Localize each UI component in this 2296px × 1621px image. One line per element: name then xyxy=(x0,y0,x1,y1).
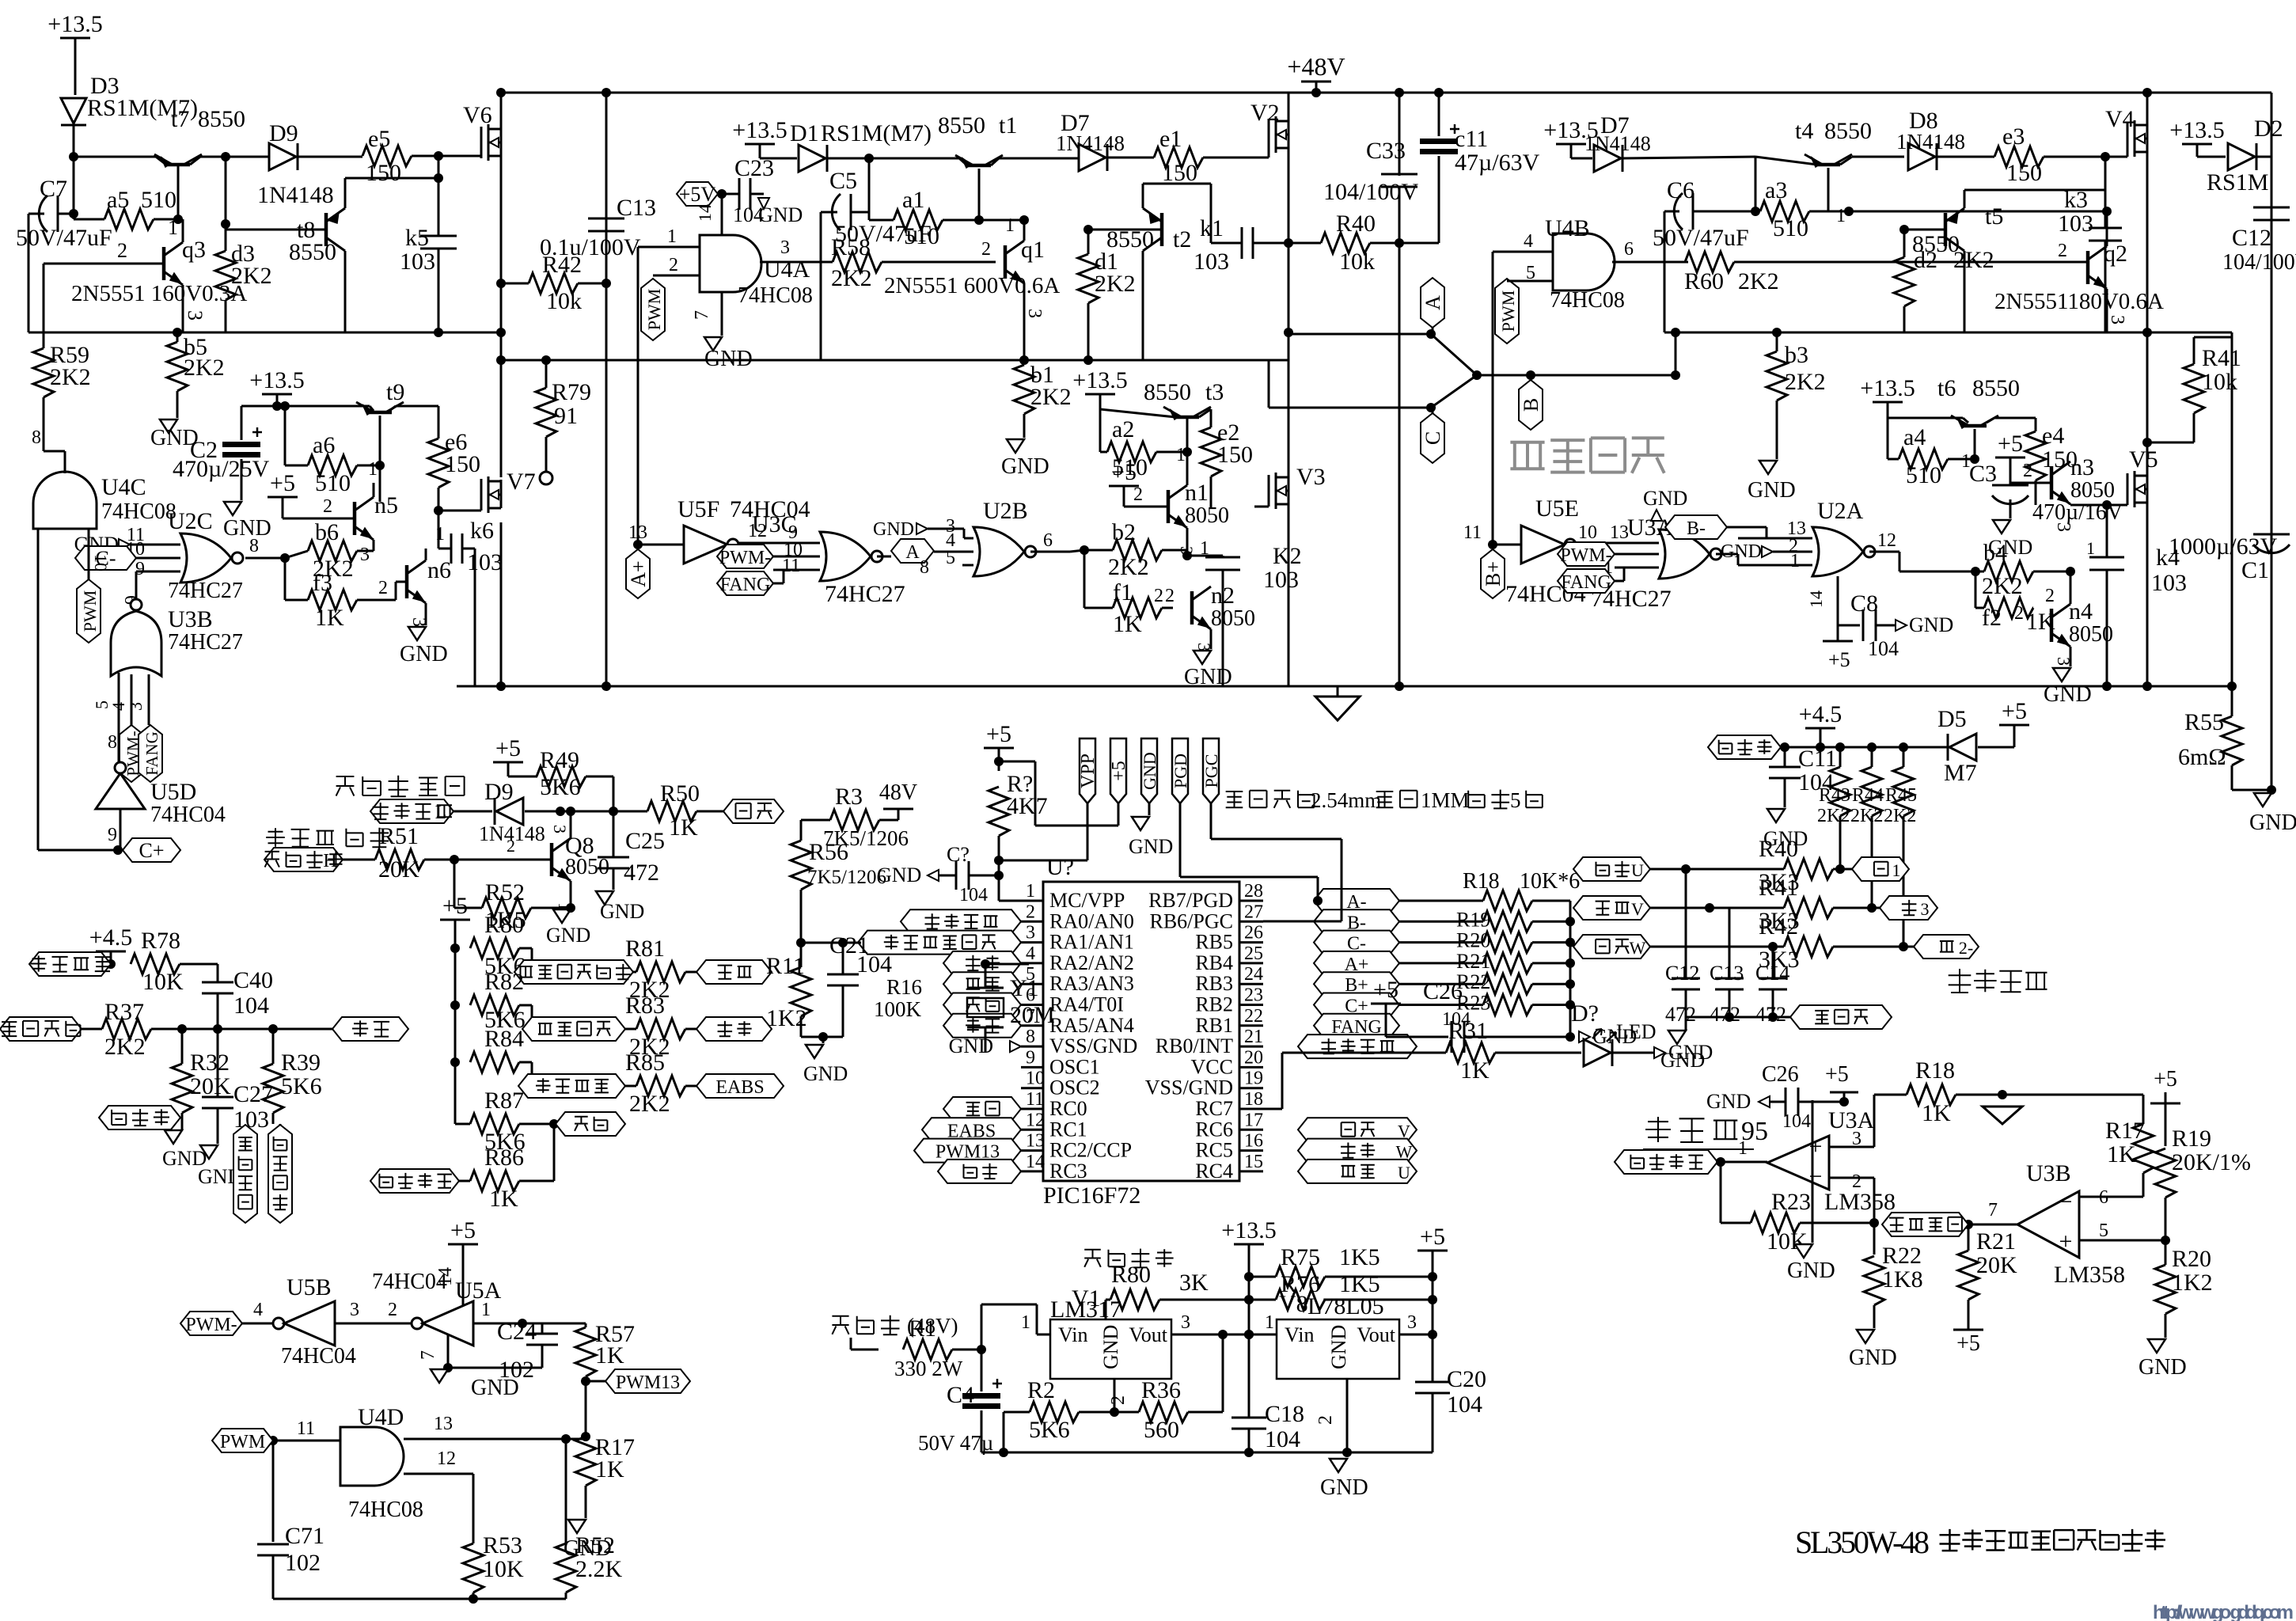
transistor t1 xyxy=(938,112,1078,220)
svg-text:1K5: 1K5 xyxy=(1339,1244,1380,1270)
transistor n6 xyxy=(407,549,451,627)
svg-text:74HC08: 74HC08 xyxy=(1550,288,1625,313)
svg-text:GND: GND xyxy=(1849,1346,1897,1370)
NOR gate U2B xyxy=(873,498,1070,576)
wire b2 riser xyxy=(1177,546,1197,555)
svg-text:2: 2 xyxy=(981,239,991,260)
svg-text:+: + xyxy=(1809,1133,1823,1160)
svg-text:12: 12 xyxy=(1877,530,1896,551)
svg-text:R3: R3 xyxy=(835,784,863,810)
flag speed-limit switch 2 xyxy=(268,1124,292,1223)
capacitor C21 xyxy=(801,932,892,1042)
pin 28 RB7/PGD xyxy=(1148,881,1263,912)
resistor R59 xyxy=(33,332,91,397)
svg-text:f1: f1 xyxy=(1113,579,1133,606)
capacitor k5 xyxy=(400,156,457,337)
svg-text:8550: 8550 xyxy=(1972,375,2020,401)
flag B+ U5E xyxy=(1481,549,1505,598)
svg-text:10: 10 xyxy=(1026,1069,1045,1089)
svg-text:GND: GND xyxy=(223,516,271,541)
svg-text:12: 12 xyxy=(437,1448,456,1469)
wire U4A pin7 xyxy=(692,292,753,371)
AND gate U4B xyxy=(1493,215,1688,313)
svg-text:GND: GND xyxy=(1706,1090,1751,1113)
capacitor C25 xyxy=(596,811,665,923)
flag C+ xyxy=(113,838,180,862)
svg-text:OSC1: OSC1 xyxy=(1049,1055,1100,1078)
svg-text:R42: R42 xyxy=(1759,913,1798,940)
svg-text:4: 4 xyxy=(1524,231,1533,252)
svg-text:74HC08: 74HC08 xyxy=(738,283,813,308)
svg-text:R80: R80 xyxy=(484,912,524,938)
transistor n5 xyxy=(323,492,398,551)
opamp U3B xyxy=(1964,1160,2170,1288)
flag C+ pin23 xyxy=(1314,993,1399,1017)
diode D9 xyxy=(257,120,362,208)
svg-text:D9: D9 xyxy=(269,120,298,146)
svg-text:VCC: VCC xyxy=(1191,1055,1233,1078)
svg-text:1K2: 1K2 xyxy=(766,1005,807,1031)
pin 27 RB6/PGC xyxy=(1150,902,1264,932)
power +5 R49 xyxy=(493,735,537,776)
pin 7 RA5/AN4 xyxy=(1021,1006,1134,1037)
flag PWM- out xyxy=(180,1300,273,1335)
svg-text:R82: R82 xyxy=(484,969,524,995)
wire n2 col2 xyxy=(0,0,1,1)
svg-text:3: 3 xyxy=(408,617,429,627)
svg-text:20K/1%: 20K/1% xyxy=(2172,1149,2251,1175)
power +5 C3 xyxy=(1995,431,2025,483)
resistor R1 xyxy=(894,1315,986,1380)
capacitor C27 xyxy=(198,1029,273,1188)
svg-text:R40: R40 xyxy=(1336,211,1376,237)
wire U2A out to b4 xyxy=(1899,552,1975,571)
flag brake out xyxy=(723,799,784,823)
flag 刹车 pin5 xyxy=(943,972,1021,996)
svg-text:C1: C1 xyxy=(2241,557,2269,583)
svg-text:R43: R43 xyxy=(1819,785,1850,806)
flag speed-limit switch 1 xyxy=(233,1125,257,1223)
svg-text:3: 3 xyxy=(1181,1312,1190,1333)
flag blue1 xyxy=(1852,857,1909,881)
svg-text:R86: R86 xyxy=(484,1145,524,1171)
svg-text:8550: 8550 xyxy=(289,239,336,265)
svg-text:2: 2 xyxy=(1154,586,1163,606)
resistor b6 xyxy=(285,519,374,582)
pin 8 VSS/GND xyxy=(1021,1027,1137,1057)
capacitor C24 xyxy=(497,1319,586,1383)
svg-text:V: V xyxy=(1631,899,1644,919)
resistor R56 xyxy=(791,820,886,943)
svg-text:2: 2 xyxy=(1165,586,1175,606)
resistor d2 xyxy=(1894,230,1994,332)
svg-text:2: 2 xyxy=(2023,461,2032,481)
svg-text:1N4148: 1N4148 xyxy=(257,182,334,208)
capacitor C33 xyxy=(1323,88,1418,691)
svg-text:2: 2 xyxy=(117,239,127,262)
resistor e6 xyxy=(428,429,480,515)
capacitor C3 xyxy=(1969,461,2123,559)
resistor R21 xyxy=(1958,1224,2017,1330)
pin 5 RA3/AN3 xyxy=(1021,964,1134,995)
svg-text:U3B: U3B xyxy=(2026,1160,2071,1186)
svg-text:13: 13 xyxy=(434,1414,453,1434)
svg-text:14: 14 xyxy=(435,1267,456,1286)
resistor R45 xyxy=(1884,747,1917,947)
flag hall red xyxy=(1708,735,1947,759)
flag PWM13 out xyxy=(586,1369,690,1393)
svg-text:PWM: PWM xyxy=(80,590,100,632)
svg-text:R60: R60 xyxy=(1684,268,1724,294)
resistor R36 xyxy=(1114,1330,1228,1443)
label R18 10K*6 xyxy=(1463,869,1580,894)
svg-text:+5V: +5V xyxy=(679,183,716,206)
svg-text:LED: LED xyxy=(1616,1020,1657,1043)
resistor R84 row xyxy=(470,1026,532,1086)
svg-text:RA5/AN4: RA5/AN4 xyxy=(1049,1014,1134,1037)
mosfet V7 xyxy=(438,469,536,691)
svg-text:2: 2 xyxy=(2058,241,2067,261)
svg-text:9: 9 xyxy=(1026,1047,1035,1068)
svg-text:+4.5: +4.5 xyxy=(89,924,132,951)
svg-text:OSC2: OSC2 xyxy=(1049,1076,1100,1099)
capacitor k4 xyxy=(2086,505,2187,691)
capacitor C6 xyxy=(1653,177,1760,332)
resistor b5 xyxy=(167,328,225,418)
svg-text:U2A: U2A xyxy=(1817,498,1864,524)
svg-text:Y1: Y1 xyxy=(1010,975,1039,1001)
pin 24 RB3 xyxy=(1195,964,1263,995)
svg-text:C26: C26 xyxy=(1423,978,1463,1004)
capacitor C12 xyxy=(2222,207,2296,275)
svg-text:1000µ/63V: 1000µ/63V xyxy=(2169,533,2278,560)
wire keylock xyxy=(851,1338,879,1350)
svg-text:104: 104 xyxy=(1447,1391,1482,1418)
flag PWM U4B xyxy=(1495,279,1519,344)
svg-text:−: − xyxy=(2059,1189,2073,1215)
svg-text:C33: C33 xyxy=(1366,138,1406,164)
transistor t2 xyxy=(1106,184,1191,252)
text url xyxy=(2153,1602,2294,1621)
flag PGC header xyxy=(1201,738,1342,921)
transistor n1 xyxy=(1124,452,1229,528)
svg-text:3: 3 xyxy=(360,545,370,565)
transistor n3 xyxy=(2010,454,2115,504)
svg-text:SL350W-48: SL350W-48 xyxy=(1795,1524,1930,1560)
wire C diag xyxy=(1431,375,1477,408)
svg-text:13: 13 xyxy=(1610,522,1629,543)
svg-text:PWM13: PWM13 xyxy=(616,1372,680,1393)
svg-text:R49: R49 xyxy=(540,747,579,773)
svg-text:a1: a1 xyxy=(902,187,924,213)
svg-text:R20: R20 xyxy=(1456,929,1490,952)
svg-text:+13.5: +13.5 xyxy=(47,11,102,37)
pin 13 RC2/CCP xyxy=(1021,1131,1132,1162)
svg-text:1K: 1K xyxy=(315,605,344,631)
svg-text:104: 104 xyxy=(1868,637,1899,660)
flag GND header xyxy=(1129,738,1173,858)
svg-text:0.1u/100V: 0.1u/100V xyxy=(540,234,641,260)
svg-text:R81: R81 xyxy=(625,936,665,962)
transistor q2 xyxy=(1994,207,2164,332)
mosfet V6 xyxy=(463,88,506,477)
flag A+ U5F xyxy=(626,545,650,598)
svg-text:V8: V8 xyxy=(1279,1291,1308,1317)
svg-text:16: 16 xyxy=(1244,1131,1263,1152)
flag brake switch H xyxy=(264,848,344,871)
svg-text:RC5: RC5 xyxy=(1195,1139,1233,1162)
svg-text:R11: R11 xyxy=(766,953,805,979)
svg-text:R17: R17 xyxy=(2105,1118,2145,1144)
svg-text:74HC08: 74HC08 xyxy=(101,499,176,524)
svg-text:RC7: RC7 xyxy=(1195,1097,1233,1120)
svg-text:+13.5: +13.5 xyxy=(1221,1217,1276,1243)
capacitor C? xyxy=(877,843,1004,905)
svg-text:2: 2 xyxy=(1133,484,1143,505)
power +13.5 D1 xyxy=(732,117,797,158)
svg-text:RS1M: RS1M xyxy=(2207,169,2268,196)
resistor R83 xyxy=(625,993,696,1060)
svg-text:1: 1 xyxy=(1790,551,1800,571)
power +13.5 D2 xyxy=(2169,117,2226,157)
svg-text:+48V: +48V xyxy=(1287,52,1345,81)
svg-text:GND: GND xyxy=(2044,682,2092,707)
svg-text:510: 510 xyxy=(1906,462,1941,488)
resistor R87 xyxy=(455,1088,559,1155)
text motor section xyxy=(1510,438,1664,473)
svg-text:6: 6 xyxy=(1043,530,1053,551)
svg-text:U5B: U5B xyxy=(287,1274,332,1300)
svg-text:2K2: 2K2 xyxy=(184,355,225,381)
resistor R60 xyxy=(1684,252,2088,294)
svg-text:2K2: 2K2 xyxy=(231,263,272,289)
power +5 U5A xyxy=(435,1217,478,1306)
svg-text:GND: GND xyxy=(1660,1049,1705,1072)
capacitor C7 xyxy=(16,176,112,332)
svg-text:RA0/AN0: RA0/AN0 xyxy=(1049,909,1134,932)
flag PWM left xyxy=(77,579,101,643)
svg-text:U: U xyxy=(1631,860,1644,880)
svg-text:GND: GND xyxy=(1001,454,1049,479)
svg-text:L: L xyxy=(435,803,447,823)
flag PWM- U3A xyxy=(1558,542,1615,566)
svg-text:1: 1 xyxy=(2086,538,2095,558)
svg-text:Vout: Vout xyxy=(1357,1323,1395,1346)
resistor R85 xyxy=(625,1050,696,1117)
text not exceed 95 xyxy=(1643,1117,1768,1149)
power +13.5 t3 area xyxy=(1072,367,1127,452)
svg-text:n5: n5 xyxy=(374,492,398,518)
svg-text:R41: R41 xyxy=(1759,875,1798,901)
power +5 n5 xyxy=(268,470,355,518)
svg-text:t6: t6 xyxy=(1937,375,1956,401)
resistor R80 3K xyxy=(1106,1262,1249,1310)
svg-text:104: 104 xyxy=(959,885,988,905)
svg-text:C: C xyxy=(1421,431,1444,445)
svg-text:http://www.go-gddq.com: http://www.go-gddq.com xyxy=(2153,1602,2294,1621)
svg-text:104: 104 xyxy=(1265,1426,1300,1452)
svg-text:2: 2 xyxy=(507,836,515,856)
svg-text:1: 1 xyxy=(1892,860,1901,880)
AND gate U4D xyxy=(268,1404,586,1543)
pin 22 RB1 xyxy=(1195,1006,1263,1037)
text programming note xyxy=(1226,788,1543,812)
resistor a3 xyxy=(1760,177,1854,241)
flag 调速 pin4 xyxy=(943,951,1021,975)
svg-text:1K: 1K xyxy=(595,1342,624,1369)
capacitor c11 xyxy=(1420,88,1540,243)
svg-text:2K2: 2K2 xyxy=(1850,806,1883,826)
power +13.5 mid xyxy=(1221,1217,1276,1417)
flag VPP header xyxy=(1078,738,1099,860)
flag FANG U3B xyxy=(139,725,162,782)
svg-text:3: 3 xyxy=(2054,657,2074,666)
svg-text:1: 1 xyxy=(1265,1312,1274,1333)
svg-text:+4.5: +4.5 xyxy=(1799,701,1842,727)
svg-text:VSS/GND: VSS/GND xyxy=(1145,1076,1233,1099)
svg-text:C13: C13 xyxy=(617,195,656,221)
wire R? to pin1 xyxy=(999,860,1087,901)
svg-text:+5: +5 xyxy=(270,470,295,496)
resistor b1 xyxy=(1001,355,1072,479)
flag overcurrent pin21 xyxy=(1298,1034,1417,1058)
inverter U5F xyxy=(628,496,820,564)
svg-text:1N4148: 1N4148 xyxy=(1056,131,1125,155)
power +13.5 D7b xyxy=(1543,117,1598,158)
mosfet V2 xyxy=(1250,93,1293,477)
svg-text:k6: k6 xyxy=(470,518,494,544)
svg-text:6mΩ: 6mΩ xyxy=(2178,744,2226,770)
power +5 right xyxy=(1417,1224,1448,1381)
svg-text:8: 8 xyxy=(249,536,259,556)
svg-text:t1: t1 xyxy=(999,112,1017,139)
wire U5A pin7 xyxy=(418,1334,542,1400)
flag GND U2A xyxy=(1721,541,1812,562)
flag FANG pin22 xyxy=(1314,1014,1399,1038)
svg-text:7: 7 xyxy=(692,310,712,320)
AND gate U4A xyxy=(638,226,813,308)
wire bottom power rail xyxy=(981,1448,1433,1457)
svg-text:RB7/PGD: RB7/PGD xyxy=(1148,889,1233,912)
resistor a5 xyxy=(74,187,183,239)
svg-text:50V/47uF: 50V/47uF xyxy=(1653,225,1749,251)
crystal Y1 xyxy=(967,959,1055,1028)
resistor R42 xyxy=(501,252,611,314)
svg-text:GND: GND xyxy=(400,642,448,666)
svg-text:472: 472 xyxy=(1665,1003,1696,1026)
pin 19 VSS/GND xyxy=(1145,1069,1263,1099)
svg-text:+13.5: +13.5 xyxy=(1860,375,1915,401)
resistor e4 xyxy=(2025,418,2078,505)
resistor R40 hall xyxy=(1686,836,1852,895)
power +5 n1 xyxy=(1109,459,1139,497)
pin 23 RB2 xyxy=(1195,985,1263,1016)
resistor a4 xyxy=(1888,418,1979,488)
wire U4A out xyxy=(760,261,761,264)
svg-text:1K2: 1K2 xyxy=(2172,1270,2213,1296)
pin 20 VCC xyxy=(1191,1047,1263,1078)
svg-text:100K: 100K xyxy=(874,997,922,1021)
mosfet V3 xyxy=(1254,464,1326,686)
svg-text:C12: C12 xyxy=(2232,225,2271,251)
svg-text:+5: +5 xyxy=(2002,698,2027,724)
flag handle signal xyxy=(0,1017,82,1041)
svg-text:3: 3 xyxy=(126,702,146,711)
svg-text:3: 3 xyxy=(1194,643,1214,651)
svg-text:47µ/63V: 47µ/63V xyxy=(1455,150,1540,176)
power +5 D5 xyxy=(1999,698,2029,736)
svg-text:U3C: U3C xyxy=(752,511,797,537)
svg-text:R45: R45 xyxy=(1885,785,1917,806)
svg-text:74HC08: 74HC08 xyxy=(348,1498,423,1522)
svg-text:q3: q3 xyxy=(182,237,206,263)
svg-text:+13.5: +13.5 xyxy=(732,117,787,143)
svg-text:−: − xyxy=(1809,1164,1823,1190)
wire right local bus y420 xyxy=(1664,332,2232,334)
pin 11 RC0 xyxy=(1021,1089,1087,1120)
svg-text:C40: C40 xyxy=(233,967,273,993)
svg-text:R22: R22 xyxy=(1882,1243,1922,1269)
capacitors C12 C13 C14 hall xyxy=(1665,869,1790,1026)
svg-text:C3: C3 xyxy=(1969,461,1997,487)
svg-text:3: 3 xyxy=(1177,546,1197,555)
resistor f3 xyxy=(285,558,407,631)
svg-text:R19: R19 xyxy=(1456,908,1490,931)
svg-text:Vin: Vin xyxy=(1058,1323,1087,1346)
NOR gate U3B vertical xyxy=(92,571,243,725)
svg-text:2: 2 xyxy=(2045,586,2055,606)
flag hall V pin17 xyxy=(1298,1118,1417,1141)
svg-text:C71: C71 xyxy=(285,1523,324,1549)
svg-text:472: 472 xyxy=(624,860,659,886)
flag EABS switch xyxy=(518,1074,625,1098)
svg-text:PWM: PWM xyxy=(644,289,664,331)
svg-text:GND: GND xyxy=(1787,1258,1835,1283)
svg-text:b4: b4 xyxy=(1983,540,2007,566)
resistor R17 bot xyxy=(575,1434,635,1518)
svg-text:560: 560 xyxy=(1144,1417,1179,1443)
svg-text:R51: R51 xyxy=(379,823,419,849)
svg-text:C6: C6 xyxy=(1667,177,1694,203)
resistor R16 xyxy=(874,975,922,1021)
svg-text:4K7: 4K7 xyxy=(1007,793,1048,819)
ground R11C21 xyxy=(803,1037,848,1085)
svg-text:19: 19 xyxy=(1244,1069,1263,1089)
svg-text:1K: 1K xyxy=(669,814,698,841)
flag C- xyxy=(75,546,180,570)
svg-text:1: 1 xyxy=(435,524,445,545)
svg-text:V7: V7 xyxy=(507,469,536,495)
svg-text:+13.5: +13.5 xyxy=(249,367,304,393)
flag B- U2A xyxy=(1665,515,1767,539)
svg-text:R55: R55 xyxy=(2184,709,2224,735)
svg-text:27: 27 xyxy=(1244,902,1263,922)
svg-text:C26: C26 xyxy=(1762,1062,1799,1087)
svg-text:C13: C13 xyxy=(1710,962,1744,985)
wire R18 common xyxy=(1565,1005,1575,1042)
svg-text:e5: e5 xyxy=(368,126,390,152)
svg-text:RA3/AN3: RA3/AN3 xyxy=(1049,972,1134,995)
wire n1 emitter xyxy=(1186,528,1189,556)
resistor a2 xyxy=(1100,416,1192,480)
svg-text:R52: R52 xyxy=(575,1532,615,1558)
capacitor C5 xyxy=(821,158,932,360)
ground R20 xyxy=(2139,1339,2187,1380)
wire U2B out xyxy=(1070,550,1084,552)
pin 12 RC1 xyxy=(1021,1110,1087,1141)
svg-text:D?: D? xyxy=(1571,1000,1599,1027)
ground right edge xyxy=(2249,793,2296,835)
